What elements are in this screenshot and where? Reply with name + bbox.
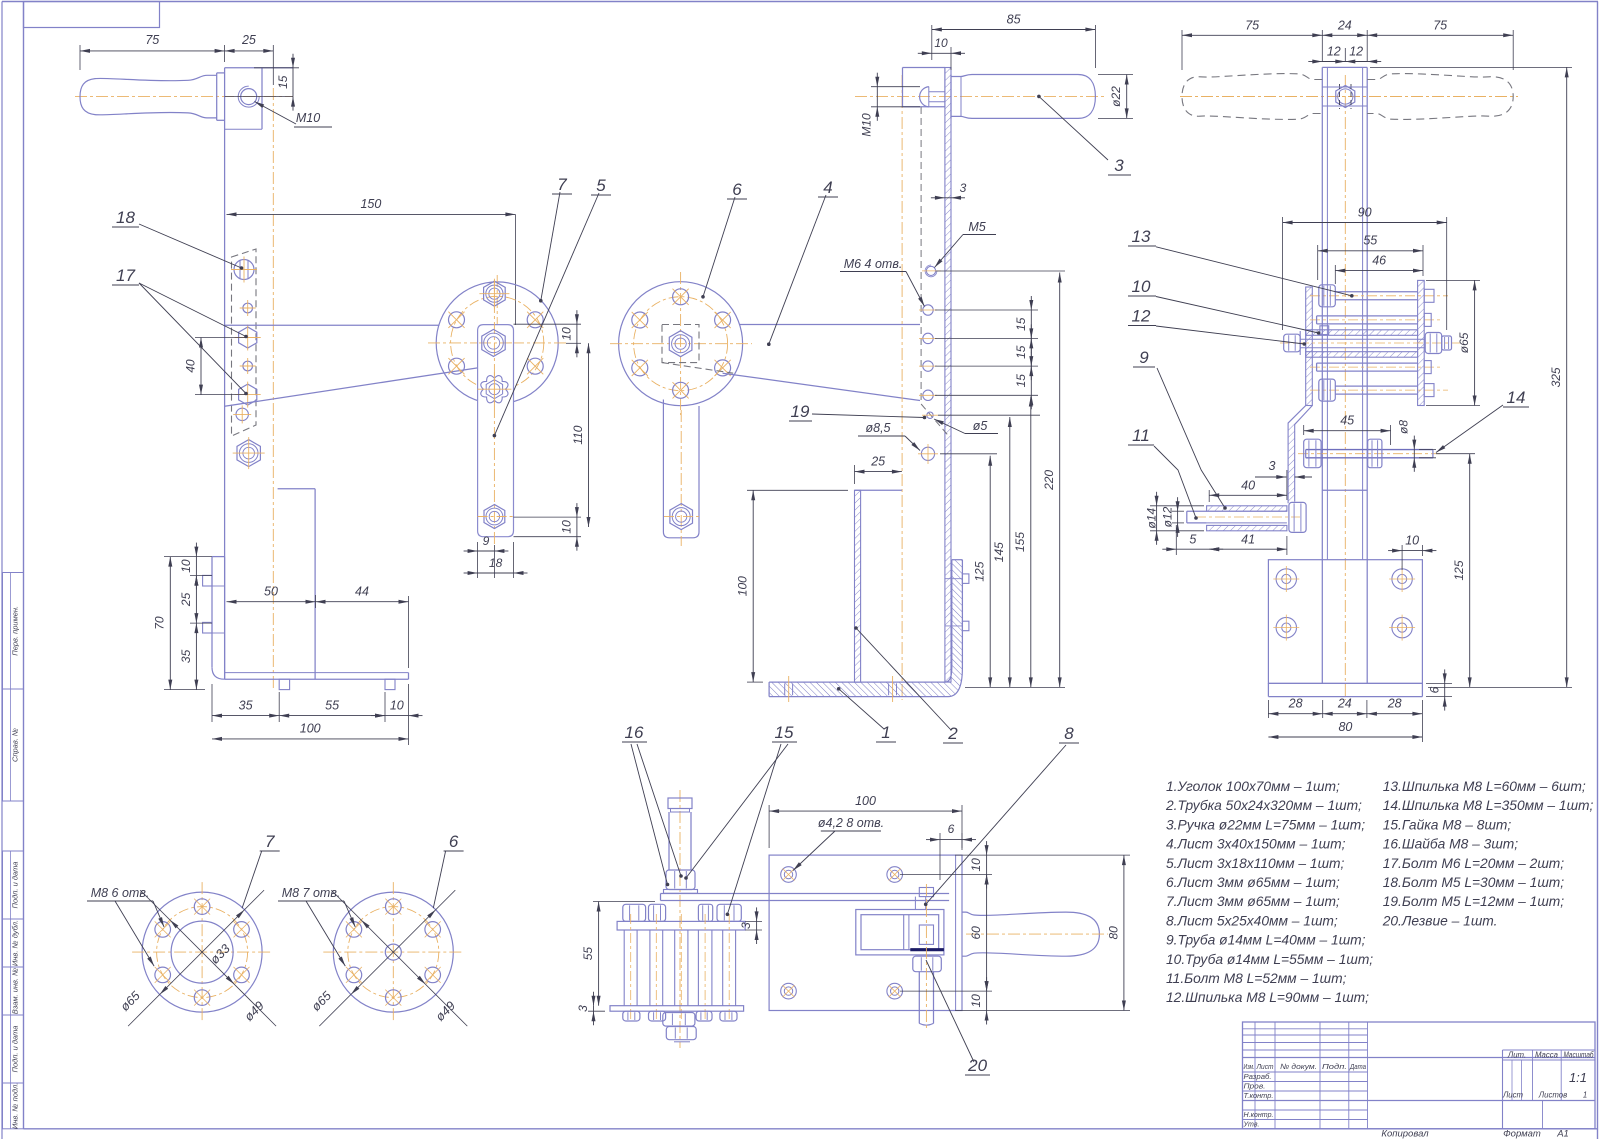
flange 7 top hex nut [479,279,509,309]
svg-text:80: 80 [1107,926,1121,940]
flange detail 6 disc [323,882,463,1022]
svg-text:35: 35 [179,649,193,663]
svg-text:ø5: ø5 [973,419,988,433]
handle pivot hex [1322,84,1367,109]
link bottom hex nut [478,505,514,529]
label 5 [493,176,611,437]
stud 13 row5 [1310,379,1448,401]
bent plate item 4 right view [1288,406,1312,504]
L-bracket item 1 left view [212,557,409,680]
blade item 20 [910,948,944,951]
svg-text:24: 24 [1337,697,1352,711]
svg-text:ø8: ø8 [1397,420,1411,434]
svg-text:Масса: Масса [1535,1051,1559,1060]
dim phi8 [1397,420,1437,472]
label 8 [924,724,1079,906]
svg-text:55: 55 [1363,234,1377,248]
svg-text:M5: M5 [968,220,985,234]
dims 28 24 28 [1268,697,1422,743]
svg-text:9: 9 [1139,348,1149,367]
flange 7 bolt holes [448,312,543,375]
svg-text:75: 75 [1245,19,1259,33]
label 16 [622,723,683,886]
hole 5 small [922,412,938,418]
dim 10 link bottom right [514,503,582,551]
svg-text:Взам. инв. №: Взам. инв. № [11,968,20,1014]
dim 3 wall [931,181,967,200]
svg-text:15.Гайка М8 – 8шт;: 15.Гайка М8 – 8шт; [1383,817,1512,832]
svg-text:ø65: ø65 [1457,332,1471,353]
svg-text:17: 17 [116,266,135,285]
svg-text:75: 75 [1433,19,1447,33]
hidden edge dashed item 4 [921,107,949,437]
nuts below bottom plate [623,1011,737,1021]
svg-text:Н.контр.: Н.контр. [1244,1110,1274,1119]
svg-text:6: 6 [732,180,742,199]
washer 16 wavy at flange 7 [477,372,511,406]
hidden square plate dashed [662,325,733,374]
flange 7 bolt holes M8 [155,899,250,1006]
svg-text:19.Болт М5 L=12мм – 1шт;: 19.Болт М5 L=12мм – 1шт; [1383,894,1565,909]
svg-text:17.Болт М6 L=20мм – 2шт;: 17.Болт М6 L=20мм – 2шт; [1383,856,1565,871]
svg-text:Разраб.: Разраб. [1244,1072,1272,1081]
svg-text:100: 100 [300,722,321,736]
svg-text:7.Лист 3мм ø65мм – 1шт;: 7.Лист 3мм ø65мм – 1шт; [1166,894,1340,909]
svg-text:16.Шайба М8 – 3шт;: 16.Шайба М8 – 3шт; [1383,837,1519,852]
svg-text:М8 6 отв.: М8 6 отв. [91,886,150,900]
svg-text:25: 25 [179,592,193,607]
central bolt 12 with tube 10 [1280,326,1460,357]
lower tube 9 with bolt 11 [1187,502,1306,532]
hex nut below plate [233,437,265,469]
flange 7 inner circle [171,921,233,983]
svg-text:10: 10 [560,520,574,534]
svg-text:ø22: ø22 [1109,86,1123,107]
dim 40 lower tube [1209,470,1287,502]
svg-text:100: 100 [855,794,876,808]
svg-text:28: 28 [1288,697,1303,711]
dim M10 left [860,73,921,137]
nuts 15 on top plate [623,904,742,921]
center hex nut flange 7 [482,329,505,356]
stud 12 shaft [669,812,691,870]
left margin GOST column boxes [3,573,24,1130]
svg-text:12.Шпилька М8 L=90мм – 1шт;: 12.Шпилька М8 L=90мм – 1шт; [1166,990,1369,1005]
svg-text:325: 325 [1549,367,1563,387]
middle view centerlines [855,75,1105,700]
dim 35 55 10 bottom chain [212,684,423,745]
label phi65 6 [309,989,334,1014]
svg-text:Масштаб: Масштаб [1564,1051,1595,1060]
link bar item 5 [478,280,514,545]
label phi4.2 8 otv [793,816,884,871]
flange 6 bolt holes [632,289,731,399]
label M8 otv 7 [87,886,164,966]
title block frame [1243,1022,1596,1129]
svg-text:2: 2 [947,724,958,743]
dim 100 plate [769,794,962,848]
svg-text:8.Лист 5х25х40мм – 1шт;: 8.Лист 5х25х40мм – 1шт; [1166,913,1338,928]
dim 25 channel [855,455,902,485]
label phi49 6 [433,999,458,1024]
dim 100 bottom [212,738,409,740]
dim 75 handle [80,33,225,70]
dim 10 flange top right [514,310,582,357]
hidden plate item 4 dashed outline [232,249,257,436]
dim 100 channel [736,490,849,682]
svg-text:M10: M10 [860,113,874,137]
svg-text:20.Лезвие – 1шт.: 20.Лезвие – 1шт. [1382,913,1498,928]
small hole 2 [240,358,256,374]
svg-text:6: 6 [948,822,955,836]
top flange plate edge view [617,921,745,930]
svg-text:Т.контр.: Т.контр. [1244,1091,1274,1100]
stud cluster right flange plate [1418,280,1425,405]
svg-text:15: 15 [1014,345,1028,359]
dim 55 stud tower [581,902,655,1006]
label 2 [854,626,963,743]
bolt 17 hex nut upper [235,325,261,351]
svg-text:50: 50 [264,585,278,599]
latch outer frame [856,910,944,955]
svg-text:70: 70 [153,616,167,630]
position label 7 [242,832,280,908]
title block texts [1243,1051,1594,1129]
svg-text:13: 13 [1132,227,1151,246]
dim 6 plate [926,822,976,880]
nut below latch [913,956,942,972]
label M8 otv 6 [278,886,355,966]
svg-text:100: 100 [736,576,750,596]
label 10 [1128,277,1320,335]
dim 55 cluster [1318,234,1423,281]
svg-text:15: 15 [1014,317,1028,331]
svg-text:2.Трубка 50х24х320мм – 1шт;: 2.Трубка 50х24х320мм – 1шт; [1165,798,1362,813]
svg-text:55: 55 [581,947,595,961]
channel bottom part [855,490,902,682]
svg-text:220: 220 [1042,470,1056,491]
svg-text:Инв. № подл.: Инв. № подл. [11,1083,20,1130]
svg-text:25: 25 [241,33,256,47]
svg-text:10: 10 [934,36,948,50]
svg-text:6.Лист 3мм ø65мм – 1шт;: 6.Лист 3мм ø65мм – 1шт; [1166,875,1340,890]
svg-text:Листов: Листов [1538,1091,1567,1100]
dims 125 145 155 220 right chain [936,271,1065,687]
label phi5 [934,419,998,434]
svg-text:11.Болт М8 L=52мм – 1шт;: 11.Болт М8 L=52мм – 1шт; [1166,971,1347,986]
stud 12 bottom double nut [663,1013,696,1042]
dim 80 right [992,855,1130,1010]
svg-text:5.Лист 3х18х110мм – 1шт;: 5.Лист 3х18х110мм – 1шт; [1166,856,1345,871]
dim 45 [1304,414,1391,446]
svg-text:15: 15 [1014,374,1028,388]
label 15 [684,723,797,916]
bottom flange plate edge view [610,1006,744,1012]
svg-text:Пров.: Пров. [1244,1082,1266,1091]
dims 5 41 lower tube [1162,525,1287,555]
svg-text:1.Уголок 100х70мм – 1шт;: 1.Уголок 100х70мм – 1шт; [1166,779,1340,794]
tube lower right edge [278,489,316,680]
svg-text:10: 10 [1132,277,1151,296]
hole 8.5 lower [233,405,251,423]
svg-text:125: 125 [973,561,987,581]
svg-text:60: 60 [969,926,983,940]
dim 85 handle top [932,13,1096,69]
label 20 [926,960,990,1075]
view A centerlines [75,88,293,688]
svg-text:15: 15 [276,75,290,89]
svg-text:14.Шпилька М8 L=350мм – 1шт;: 14.Шпилька М8 L=350мм – 1шт; [1383,798,1594,813]
dim 3 stud tower bottom [576,992,605,1025]
svg-text:41: 41 [1241,533,1255,547]
T-handle left dashed [1182,74,1322,120]
dim phi22 [1098,75,1133,119]
bolt 17 hex nut lower [235,382,261,408]
dim 10 top [918,36,965,70]
hatched plate item 2 wall [945,68,951,683]
label phi33 flange 7 detail [208,942,233,967]
position label 6 [433,832,463,908]
dim 325 right [1370,67,1572,687]
svg-text:M10: M10 [296,111,320,125]
svg-text:ø14: ø14 [1145,508,1159,529]
top-left corner stamp box [24,2,160,28]
svg-text:20: 20 [967,1056,987,1075]
svg-text:125: 125 [1452,560,1466,580]
dim 110 right [571,343,591,527]
svg-text:18.Болт М5 L=30мм – 1шт;: 18.Болт М5 L=30мм – 1шт; [1383,875,1565,890]
svg-text:№ докум.: № докум. [1280,1062,1317,1071]
svg-text:Перв. примен.: Перв. примен. [11,606,20,656]
dim 9 and 18 below link [464,534,528,578]
svg-text:25: 25 [870,455,885,469]
svg-text:1: 1 [1583,1091,1587,1100]
svg-text:18: 18 [489,556,503,570]
bolt 18 head [231,257,257,283]
svg-text:14: 14 [1507,388,1526,407]
svg-text:80: 80 [1338,720,1352,734]
svg-text:15: 15 [775,723,794,742]
svg-text:6: 6 [1428,686,1442,693]
stud 13 row2 [1310,313,1440,326]
svg-text:М8 7 отв.: М8 7 отв. [282,886,341,900]
flange 6 bolt holes M8 [346,899,441,1006]
svg-text:6: 6 [449,832,459,851]
svg-text:10: 10 [969,994,983,1008]
dim 6 base [1426,669,1452,710]
bolt rod below [919,884,933,1030]
stud 12 upper hex nut [666,870,695,890]
svg-text:4.Лист 3х40х150мм – 1шт;: 4.Лист 3х40х150мм – 1шт; [1166,837,1346,852]
dim 3 bent plate [1255,459,1312,479]
label phi65 7 [118,989,143,1014]
svg-text:12: 12 [1132,307,1151,326]
svg-text:145: 145 [992,542,1006,562]
svg-text:Формат: Формат [1503,1129,1541,1139]
svg-text:35: 35 [239,699,253,713]
angle item 1 base middle view [769,560,962,697]
label phi49 7 [242,999,267,1024]
svg-text:Лист: Лист [1256,1062,1274,1071]
svg-text:10.Труба ø14мм L=55мм – 1шт;: 10.Труба ø14мм L=55мм – 1шт; [1166,952,1373,967]
svg-text:5: 5 [1189,533,1196,547]
svg-text:Утв.: Утв. [1243,1120,1260,1129]
svg-text:ø12: ø12 [1161,506,1175,527]
svg-text:55: 55 [325,699,339,713]
label 17 [112,266,248,395]
svg-text:ø4,2 8 отв.: ø4,2 8 отв. [818,816,884,830]
svg-text:46: 46 [1372,254,1386,268]
svg-text:11: 11 [1132,426,1150,445]
label 19 [789,402,926,421]
tube bracket below cluster [1323,489,1367,491]
right view centerlines [1180,75,1518,700]
dim 3 top plate right [739,907,762,944]
lever bar item 5 edge view [661,894,950,901]
svg-text:8: 8 [1064,724,1074,743]
dim 150 [227,197,516,325]
label 9 [1133,348,1227,510]
svg-text:3: 3 [739,922,753,929]
dim 40 left [184,338,248,395]
svg-text:Копировал: Копировал [1381,1129,1429,1139]
svg-text:12: 12 [1349,45,1363,59]
label M5 [935,220,997,268]
svg-text:10: 10 [560,327,574,341]
svg-text:28: 28 [1387,697,1402,711]
svg-text:10: 10 [969,858,983,872]
svg-text:3.Ручка ø22мм L=75мм – 1шт;: 3.Ручка ø22мм L=75мм – 1шт; [1166,817,1365,832]
handle item 3 left view [80,73,225,120]
stud 12 top cap [668,798,692,812]
lever arm item 4 to middle view [723,325,920,401]
main plate item 8 view [769,855,962,1010]
bottom margin texts [1381,1129,1568,1139]
top bracket middle view [903,68,945,107]
hole 8.5 [918,444,938,464]
dims 15 x3 [935,296,1038,409]
dim phi65 cluster [1426,280,1480,405]
tube item 2 front view [1322,67,1367,683]
flange 6 center hole [385,944,401,960]
svg-text:90: 90 [1358,206,1372,220]
dims phi14 phi12 [1145,492,1205,545]
svg-text:М6 4 отв.: М6 4 отв. [844,257,903,271]
svg-text:150: 150 [360,197,381,211]
label 7 [539,175,572,303]
dim 80 [1268,720,1422,739]
svg-text:24: 24 [1337,19,1352,33]
hole M5 top [922,265,941,277]
flange 6 lower link bar [663,400,699,547]
handle item 3 bottom view [962,912,1108,956]
svg-text:155: 155 [1013,532,1027,552]
dims 10 60 10 right chain [900,841,992,1024]
svg-text:45: 45 [1340,414,1354,428]
flange 6 center hex nut [669,331,692,357]
label 13 [1128,227,1354,298]
bracket feet [279,679,395,689]
svg-text:Лист: Лист [1502,1091,1524,1100]
svg-text:Инв. № дубл.: Инв. № дубл. [11,920,20,966]
label M10 [255,102,333,128]
stud cluster left plate [1306,287,1313,406]
base slots and centerlines [785,676,897,702]
dim 10 25 35 bracket left chain [179,543,212,690]
label 14 [1436,388,1529,453]
dim 90 cluster [1283,206,1447,331]
flange 6 link bottom nut [664,504,699,530]
flange item 6 disc [610,272,752,415]
handle item 3 middle view [951,75,1095,119]
bolts 17 in angle leg [945,574,969,631]
stud tower centerline [679,790,681,1048]
svg-text:1:1: 1:1 [1569,1070,1587,1085]
washer 16 under nut [664,890,698,894]
dims 12 12 [1308,45,1381,64]
lever arm item 4 edge lines [225,325,478,406]
latch top tab [915,888,933,910]
label 6 [701,180,747,299]
svg-text:9.Труба ø14мм L=40мм – 1шт;: 9.Труба ø14мм L=40мм – 1шт; [1166,933,1366,948]
svg-text:40: 40 [1241,479,1255,493]
label phi8.5 [858,421,920,451]
dim 46 cluster [1335,254,1423,285]
label M6 4 otv [840,257,925,307]
base back plate right view [1268,560,1422,697]
dim 25 plate top [225,33,274,85]
parts list column 1 [1165,779,1373,1005]
flange 6 diagonal lines [319,890,467,1026]
svg-text:7: 7 [265,832,275,851]
latch block [904,915,934,950]
parts list column 2 [1382,779,1594,928]
svg-text:3: 3 [1114,156,1124,175]
svg-text:3: 3 [960,181,967,195]
label 11 [1128,426,1198,520]
svg-text:12: 12 [1327,45,1341,59]
svg-text:1: 1 [881,723,890,742]
plate screw holes 4.2 [781,867,903,999]
flange 7 diagonal lines [128,890,276,1026]
svg-text:3: 3 [1269,459,1276,473]
svg-text:А1: А1 [1556,1129,1569,1139]
small hole 1 [240,300,256,316]
flange detail 7 disc [132,882,272,1022]
label 12 [1128,307,1306,346]
svg-text:Лит.: Лит. [1507,1051,1526,1060]
label 1 [837,687,896,742]
svg-text:Подп. и дата: Подп. и дата [11,862,20,909]
label 18 [112,208,243,270]
svg-text:13.Шпилька М8 L=60мм – 6шт;: 13.Шпилька М8 L=60мм – 6шт; [1383,779,1586,794]
dim 15 right [254,54,299,111]
dims 75 24 75 top [1182,19,1513,71]
vertical plate item 2 left view [225,68,293,679]
svg-text:Дата: Дата [1349,1062,1366,1071]
studs 13 vertical rods [624,914,735,1020]
svg-text:16: 16 [625,723,644,742]
M10 hole [225,86,293,107]
bolts 17 through bracket left leg [203,575,225,633]
svg-text:10: 10 [390,699,404,713]
dim 125 base [1436,454,1475,688]
dim 70 bracket [153,557,213,690]
svg-text:3: 3 [576,1005,590,1012]
svg-text:Изм.: Изм. [1244,1062,1255,1071]
svg-text:85: 85 [1007,13,1021,27]
stud 13 row4 [1310,361,1440,374]
